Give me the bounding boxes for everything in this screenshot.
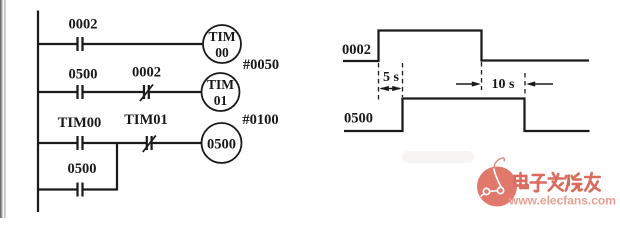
svg-text:0002: 0002 [342, 42, 371, 58]
svg-text:10 s: 10 s [492, 77, 516, 92]
watermark url www.elecfans.com [508, 194, 616, 208]
set value #0100 [242, 112, 278, 128]
left scan line artifact [4, 0, 5, 218]
rung 3 wire middle [84, 142, 147, 144]
dashed guide at 0002 rise [378, 63, 380, 100]
rung 3 wire right [153, 142, 202, 144]
waveform 0002 [343, 31, 589, 62]
svg-text:0500: 0500 [68, 161, 97, 177]
svg-text:0002: 0002 [132, 65, 161, 81]
rung 2 wire right [150, 91, 201, 93]
branch wire right [84, 188, 118, 190]
label 0500 rung 2 [69, 67, 98, 83]
svg-text:0500: 0500 [344, 111, 373, 127]
contact TIM01 (NC) rung 3 [143, 136, 156, 153]
svg-text:01: 01 [214, 93, 228, 108]
contact TIM00 (NO) rung 3 [78, 136, 83, 150]
left power rail [37, 11, 39, 213]
watermark logo stem [494, 158, 505, 169]
contact 0500 (NO) branch [78, 183, 83, 197]
contact 0500 (NO) rung 2 [78, 85, 83, 99]
watermark text fa (发) [549, 173, 563, 191]
branch wire left [38, 188, 77, 190]
label 0002 rung 2 [132, 65, 161, 81]
coil 0500 [202, 123, 242, 163]
rung 1 wire right [84, 43, 204, 45]
rung 1 wire left [38, 43, 77, 45]
label 0002 rung 1 [69, 17, 98, 33]
svg-text:0500: 0500 [207, 137, 236, 153]
watermark text dian (电) [515, 173, 528, 188]
watermark logo disc [477, 167, 517, 207]
watermark text zi (子) [531, 175, 546, 191]
timing label 0500 [344, 111, 373, 127]
svg-text:0500: 0500 [69, 67, 98, 83]
label TIM01 [124, 112, 168, 128]
svg-text:TIM00: TIM00 [58, 115, 102, 131]
label 5 s [383, 70, 400, 85]
rung 2 wire left [38, 91, 77, 93]
label 10 s [492, 77, 516, 92]
rung 3 wire left [38, 142, 77, 144]
watermark chinese text group [515, 173, 600, 192]
timing label 0002 [342, 42, 371, 58]
dashed guide at 0500 rise [402, 63, 404, 97]
dashed guide at 0002 fall [481, 62, 483, 90]
contact 0002 (NC) rung 2 [140, 85, 153, 102]
label TIM00 [58, 115, 102, 131]
svg-text:#0050: #0050 [243, 57, 279, 73]
rung 2 wire middle [84, 91, 144, 93]
watermark text you (友) [585, 173, 600, 192]
label 0500 branch [68, 161, 97, 177]
watermark text shao (烧) [565, 174, 582, 192]
svg-text:TIM: TIM [209, 29, 236, 44]
svg-text:TIM01: TIM01 [124, 112, 168, 128]
dashed guide at 0500 fall [524, 73, 526, 97]
coil TIM 01 [202, 73, 240, 111]
svg-text:0002: 0002 [69, 17, 98, 33]
branch vertical wire [116, 143, 118, 191]
dimension arrow 5s [380, 86, 402, 91]
faint smudge left of logo [402, 151, 474, 163]
svg-text:www.elecfans.com: www.elecfans.com [508, 194, 616, 208]
set value #0050 [243, 57, 279, 73]
svg-text:00: 00 [215, 45, 229, 60]
contact 0002 (NO) rung 1 [78, 37, 83, 51]
left scan edge artifact [0, 0, 3, 218]
dimension arrow 10s right [526, 81, 553, 86]
dimension arrow 10s left [456, 81, 481, 86]
waveform 0500 [344, 99, 590, 132]
coil TIM 00 [203, 25, 241, 63]
svg-text:#0100: #0100 [242, 112, 278, 128]
svg-text:TIM: TIM [207, 77, 234, 92]
svg-text:5 s: 5 s [383, 70, 400, 85]
